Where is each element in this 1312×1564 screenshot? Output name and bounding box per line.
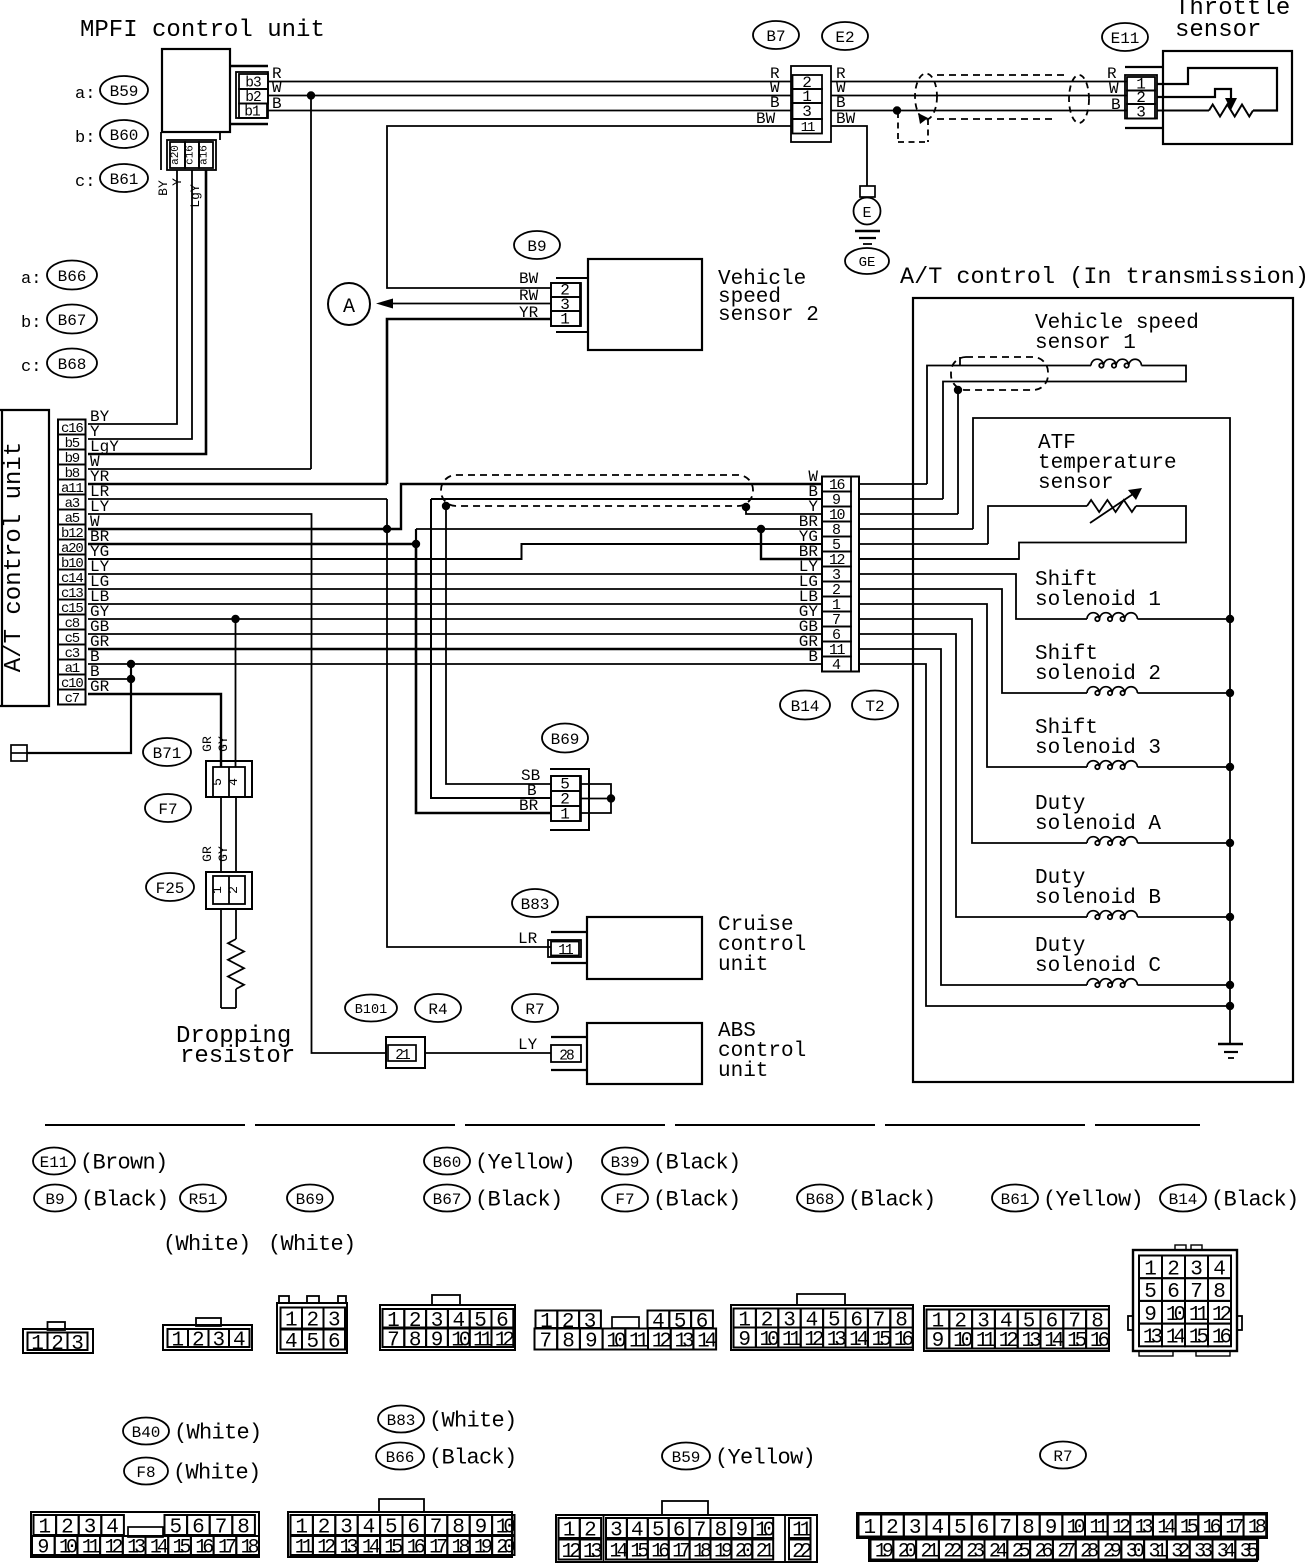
svg-text:MPFI control unit: MPFI control unit	[80, 17, 325, 44]
legend id B59	[662, 1443, 710, 1470]
svg-text:B59: B59	[110, 83, 139, 101]
svg-text:B39: B39	[611, 1154, 640, 1172]
svg-text:4: 4	[832, 657, 841, 674]
pinout connector B9 (1 2 3 4)	[163, 1325, 252, 1350]
junction BR at 761	[757, 525, 765, 533]
wire BW B7-11 to VSS2	[387, 126, 791, 288]
svg-text:3: 3	[909, 1517, 922, 1540]
wire BR to B14-8	[416, 528, 761, 530]
svg-text:2: 2	[886, 1517, 899, 1540]
wire LY to ABS-28	[425, 1052, 551, 1054]
wire B pill to B14-9	[431, 498, 822, 500]
svg-text:R51: R51	[189, 1191, 218, 1209]
svg-text:(Black): (Black)	[1211, 1187, 1299, 1212]
svg-text:LR: LR	[518, 930, 538, 948]
common return outline (inner box)	[973, 418, 1230, 1006]
svg-text:6: 6	[977, 1517, 990, 1540]
svg-text:9: 9	[585, 1331, 598, 1354]
svg-text:1: 1	[864, 1517, 877, 1540]
legend id F7	[602, 1185, 648, 1212]
svg-text:B: B	[808, 648, 818, 666]
svg-text:4: 4	[226, 778, 241, 786]
wire B b1 to B7-3	[268, 110, 791, 112]
svg-text:1: 1	[560, 806, 570, 824]
svg-text:E2: E2	[835, 29, 854, 47]
shield dashed bottom	[937, 118, 1057, 120]
svg-text:b:: b:	[75, 129, 95, 148]
connector id R7	[512, 994, 558, 1022]
svg-text:B68: B68	[58, 356, 87, 374]
pinout connector B68 (1-16)	[731, 1305, 913, 1350]
wire BR B14-12 to ATF return	[859, 558, 1019, 560]
svg-text:T2: T2	[865, 698, 884, 716]
pinout connector B69 (1-6)	[277, 1303, 347, 1353]
svg-text:c:: c:	[21, 358, 41, 377]
svg-text:21: 21	[395, 1048, 410, 1064]
A/T control unit bracket	[0, 410, 49, 706]
svg-text:solenoid 1: solenoid 1	[1035, 589, 1161, 612]
legend id B60	[424, 1148, 470, 1175]
svg-text:2: 2	[51, 1333, 64, 1356]
svg-text:B59: B59	[672, 1449, 701, 1467]
svg-text:B7: B7	[766, 28, 785, 46]
wire VSS1 top	[927, 366, 1091, 485]
legend id B14	[1160, 1185, 1206, 1212]
svg-text:1: 1	[560, 311, 570, 329]
wire YR a11	[88, 483, 387, 486]
shield dashed pill A/T-B14 bundle	[441, 475, 753, 506]
wire BY c16 to MPFI a20	[88, 170, 177, 424]
svg-text:a:: a:	[21, 270, 41, 289]
svg-text:GY: GY	[216, 846, 231, 862]
wire GB c5 to B14-6	[88, 633, 822, 635]
svg-text:11: 11	[801, 120, 815, 136]
legend id B68	[797, 1185, 843, 1212]
wire GY riser to B71-4	[235, 619, 237, 767]
connector id F7	[145, 794, 191, 822]
svg-text:B69: B69	[551, 731, 580, 749]
svg-text:B9: B9	[527, 238, 546, 256]
junction W at x311	[307, 91, 315, 99]
svg-text:solenoid 3: solenoid 3	[1035, 737, 1161, 760]
svg-text:sensor 2: sensor 2	[718, 304, 819, 327]
wiper wire	[1157, 89, 1231, 99]
wire BR riser up	[415, 529, 417, 544]
svg-text:B61: B61	[1001, 1191, 1030, 1209]
svg-text:GY: GY	[216, 736, 231, 752]
svg-text:E11: E11	[1111, 30, 1140, 48]
svg-text:sensor: sensor	[1038, 472, 1114, 495]
connector id B69	[542, 724, 588, 753]
svg-text:B60: B60	[433, 1154, 462, 1172]
wire BR into pin8	[761, 528, 822, 530]
wire to dropping resistor	[235, 909, 237, 939]
svg-text:8: 8	[409, 1329, 422, 1352]
connector R7 pin 28	[551, 1036, 587, 1038]
shield dashed ellipse right	[1069, 75, 1089, 123]
legend id R7	[1040, 1442, 1086, 1469]
svg-text:4: 4	[931, 1517, 944, 1540]
legend id B9	[34, 1185, 76, 1212]
junction BR a20	[412, 540, 420, 548]
legend id F8	[124, 1458, 168, 1485]
wire Y b5 to MPFI c16	[88, 170, 192, 439]
wire BR branch to B14-12	[761, 529, 822, 559]
wire YG b10 to B14-5	[88, 544, 822, 559]
connector pin 21	[386, 1037, 425, 1068]
svg-text:c:: c:	[75, 173, 95, 192]
wire pin3 to resistor	[1157, 110, 1209, 112]
svg-text:9: 9	[37, 1537, 49, 1560]
dropping resistor element	[228, 939, 244, 989]
wire B to body connector	[27, 664, 131, 753]
pinout connector B59 (1-22)	[556, 1515, 817, 1562]
wire GR c3 to B14-11	[88, 648, 822, 650]
connector F25 (pins 1 2)	[206, 872, 252, 909]
wire BW to ground E	[831, 126, 867, 186]
connector id B61	[100, 164, 148, 192]
shield dashed pill VSS1	[951, 357, 1048, 390]
pinout connector R7 (1-35)	[857, 1513, 1267, 1538]
wire BR a20	[88, 543, 416, 546]
svg-text:F25: F25	[156, 880, 185, 898]
svg-text:B68: B68	[806, 1191, 835, 1209]
legend id B69	[287, 1185, 333, 1212]
body ground connector	[11, 745, 27, 761]
svg-text:GE: GE	[859, 255, 876, 271]
svg-text:R7: R7	[525, 1001, 544, 1019]
legend id B61	[992, 1185, 1038, 1212]
A/T control unit pin column	[58, 420, 86, 705]
connector B69 (pins 5 2 1)	[550, 769, 589, 830]
wire shield riser VSS1	[957, 390, 959, 514]
svg-text:9: 9	[431, 1329, 444, 1352]
A/T transmission outer box	[913, 298, 1293, 1082]
svg-text:R4: R4	[428, 1001, 447, 1019]
MPFI control unit box	[162, 49, 230, 132]
connector B14/T2 pin column	[822, 477, 859, 672]
svg-text:(White): (White)	[174, 1420, 262, 1445]
svg-text:(White): (White)	[163, 1232, 251, 1257]
svg-text:3: 3	[212, 1330, 225, 1353]
wire R b3 to B7-2	[268, 81, 791, 83]
connector E11 (pins 1 2 3)	[1125, 66, 1162, 68]
junction a3/b12	[383, 525, 391, 533]
svg-text:1: 1	[171, 1330, 184, 1353]
connector id E2	[822, 22, 868, 50]
connector id F25	[146, 873, 194, 901]
connector id E11	[1102, 23, 1148, 51]
svg-text:E: E	[862, 205, 871, 222]
svg-text:6: 6	[328, 1331, 341, 1354]
shield dashed ellipse left	[915, 74, 937, 120]
svg-text:A: A	[343, 296, 355, 319]
wire LR a3	[88, 498, 387, 500]
wire BR a20 to B69-1	[416, 544, 551, 813]
cruise control unit box	[587, 917, 702, 979]
connector id B66	[47, 261, 97, 290]
B69 right side tie	[581, 784, 611, 813]
junction bus solenoid C	[1226, 981, 1234, 989]
junction bus solenoid A	[1226, 839, 1234, 847]
svg-text:(Black): (Black)	[81, 1187, 169, 1212]
wire LB c15 to B14-1	[88, 603, 822, 605]
wire LY c14 to B14-3	[88, 573, 822, 575]
shield drain dashed box	[897, 112, 899, 142]
svg-text:B71: B71	[153, 745, 182, 763]
svg-text:BR: BR	[519, 797, 539, 815]
wire Y shield to B14-10	[746, 507, 822, 514]
svg-text:b1: b1	[244, 105, 260, 121]
legend id B39	[602, 1148, 648, 1175]
connector B59/B60 MPFI right (pins b3 b2 b1)	[230, 65, 268, 67]
svg-text:F7: F7	[158, 801, 177, 819]
legend id B83	[378, 1406, 424, 1433]
wire W riser x311	[310, 96, 312, 470]
wire GY B71 to F25	[235, 797, 237, 872]
pinout connector E11 (1 2 3)	[23, 1329, 93, 1353]
shield dashed top	[937, 74, 1069, 76]
svg-text:B61: B61	[110, 171, 139, 189]
junction bus solenoid 3	[1226, 763, 1234, 771]
svg-text:R7: R7	[1053, 1448, 1072, 1466]
legend id B67	[424, 1185, 470, 1212]
junction bus solenoid 1	[1226, 615, 1234, 623]
wire LgY b9 to MPFI a16	[88, 170, 206, 454]
ATF variable resistor	[988, 506, 1087, 544]
legend id B66	[376, 1443, 424, 1470]
svg-text:E11: E11	[40, 1154, 69, 1172]
svg-text:7: 7	[540, 1331, 553, 1354]
svg-text:BY: BY	[156, 180, 171, 196]
wire VSS1 return	[943, 366, 1186, 500]
wire W b8 (joins riser x311)	[88, 468, 311, 470]
svg-text:(White): (White)	[268, 1232, 356, 1257]
wire B pill-bottom to B69-2	[431, 499, 551, 798]
connector B71/F7 (pins 5 4)	[206, 761, 252, 797]
ATF arrow	[1090, 492, 1136, 523]
junction bus solenoid 2	[1226, 689, 1234, 697]
wire B a1 to B14-4	[88, 663, 822, 665]
connector MPFI bottom (pins a20 c16 a16)	[160, 132, 162, 170]
wire GR B71 to F25	[220, 797, 222, 872]
connector B83 pin 11	[551, 931, 587, 933]
svg-text:5: 5	[954, 1517, 967, 1540]
junction shield drain right	[742, 503, 750, 511]
svg-text:(Black): (Black)	[848, 1187, 936, 1212]
svg-text:B14: B14	[1169, 1191, 1198, 1209]
svg-text:a:: a:	[75, 85, 95, 104]
pinout connector B60/B67 (1-12)	[380, 1305, 515, 1350]
svg-text:B: B	[1111, 96, 1121, 114]
svg-text:11: 11	[558, 943, 573, 959]
pinout connector B14 (4x4)	[1133, 1250, 1237, 1351]
svg-text:c16: c16	[185, 145, 197, 165]
connector id B7	[753, 21, 799, 49]
connector id B101	[345, 995, 397, 1022]
wire B B7 to E11	[831, 110, 1127, 112]
svg-text:BW: BW	[519, 270, 539, 288]
svg-text:sensor 1: sensor 1	[1035, 332, 1136, 355]
connector id T2	[852, 691, 898, 720]
wire W B7 to E11	[831, 95, 1127, 97]
svg-text:solenoid C: solenoid C	[1035, 955, 1161, 978]
svg-text:(Black): (Black)	[653, 1187, 741, 1212]
ground transmission	[1229, 1006, 1231, 1044]
pinout connector B61 (1-16)	[924, 1306, 1109, 1351]
svg-text:c7: c7	[65, 691, 80, 707]
vehicle speed sensor 2 box	[588, 259, 702, 350]
svg-text:1: 1	[210, 886, 225, 894]
connector id B71	[143, 738, 191, 766]
wire GR c7 to B71-5	[88, 694, 221, 767]
junction bus bottom	[1226, 1002, 1234, 1010]
connector id B14	[780, 691, 830, 720]
svg-text:3: 3	[1136, 104, 1146, 122]
svg-text:B66: B66	[58, 268, 87, 286]
junction VSS1 shield	[954, 386, 962, 394]
dashed separator	[45, 1124, 1200, 1126]
svg-text:B66: B66	[386, 1449, 415, 1467]
wire YG B14-5 to ATF	[859, 543, 988, 545]
svg-text:LgY: LgY	[188, 184, 203, 208]
svg-text:F7: F7	[615, 1191, 634, 1209]
svg-text:1: 1	[31, 1333, 44, 1356]
svg-text:solenoid B: solenoid B	[1035, 887, 1161, 910]
wire to dropping resistor	[220, 909, 222, 1008]
legend id E11	[33, 1148, 75, 1175]
svg-text:(Brown): (Brown)	[80, 1150, 168, 1175]
svg-text:4: 4	[233, 1330, 246, 1353]
connector id B67	[47, 305, 97, 334]
wire LR riser to cruise control	[387, 499, 551, 947]
svg-text:GR: GR	[200, 846, 215, 862]
svg-text:B83: B83	[387, 1412, 416, 1430]
svg-text:B101: B101	[355, 1003, 387, 1018]
inductor vehicle speed sensor 1	[1091, 359, 1141, 368]
pinout connector B39/F7 (1-14)	[536, 1311, 558, 1329]
svg-text:5: 5	[306, 1331, 319, 1354]
wire resistor bottom	[221, 1007, 236, 1009]
ground E	[860, 186, 875, 197]
wire RW to node A	[392, 303, 551, 305]
svg-text:8: 8	[562, 1331, 575, 1354]
svg-text:9: 9	[932, 1330, 945, 1353]
connector id B68	[47, 349, 97, 378]
wire B c10	[88, 678, 131, 680]
wire W B14-16 to VSS1	[859, 483, 927, 485]
svg-text:9: 9	[738, 1329, 751, 1352]
svg-text:(White): (White)	[173, 1460, 261, 1485]
connector id B59	[100, 76, 148, 104]
svg-text:LY: LY	[518, 1036, 538, 1054]
wire BR B14-8 to common	[859, 528, 973, 530]
junction B69 tie	[607, 794, 615, 802]
svg-text:F8: F8	[136, 1464, 155, 1482]
legend id B40	[123, 1418, 169, 1445]
svg-text:(White): (White)	[429, 1408, 517, 1433]
svg-text:5: 5	[210, 778, 225, 786]
svg-text:unit: unit	[718, 1060, 768, 1083]
wire Y B14-10 to shield	[859, 513, 958, 515]
svg-text:4: 4	[285, 1331, 298, 1354]
pinout connector B40/F8 (1-18)	[31, 1512, 259, 1557]
wire YR VSS2 to a11	[387, 319, 551, 484]
svg-text:B40: B40	[132, 1424, 161, 1442]
wire GY c8 to B14-7	[88, 618, 822, 620]
svg-text:(Yellow): (Yellow)	[1043, 1187, 1143, 1212]
junction bus solenoid B	[1226, 913, 1234, 921]
svg-text:A/T control unit: A/T control unit	[1, 442, 28, 672]
connector id B83	[512, 889, 558, 917]
svg-text:B83: B83	[521, 896, 550, 914]
legend id R51	[180, 1185, 226, 1212]
svg-text:b:: b:	[21, 314, 41, 333]
potentiometer resistor	[1209, 105, 1253, 117]
svg-text:B14: B14	[791, 698, 820, 716]
svg-text:(Black): (Black)	[653, 1150, 741, 1175]
wire B return bottom	[859, 664, 1230, 1006]
svg-text:A/T control (In transmission): A/T control (In transmission)	[900, 264, 1309, 291]
node A circle	[328, 283, 370, 325]
wire W b2 to B7-1	[268, 95, 791, 97]
wire W b12 to B14-16	[88, 484, 822, 529]
svg-text:B9: B9	[45, 1191, 64, 1209]
svg-text:RW: RW	[519, 287, 539, 305]
throttle sensor box	[1163, 51, 1292, 144]
wire SB shield to B69-5	[446, 506, 551, 784]
svg-text:7: 7	[387, 1329, 400, 1352]
svg-text:(Yellow): (Yellow)	[475, 1150, 575, 1175]
svg-text:solenoid 2: solenoid 2	[1035, 663, 1161, 686]
junction a1	[127, 660, 135, 668]
junction B shield	[893, 106, 901, 114]
pinout connector B66/B83 (1-20)	[288, 1512, 512, 1557]
connector id GE	[845, 248, 889, 274]
wire LY a5 to ABS	[88, 514, 386, 1053]
svg-text:2: 2	[192, 1330, 205, 1353]
svg-text:28: 28	[559, 1049, 574, 1065]
connector id B60	[100, 120, 148, 148]
svg-text:(Black): (Black)	[429, 1445, 517, 1470]
wire R B7 to E11	[831, 81, 1127, 83]
svg-text:solenoid A: solenoid A	[1035, 813, 1161, 836]
connector id B9	[514, 231, 560, 259]
junction shield drain left	[442, 502, 450, 510]
svg-text:B67: B67	[433, 1191, 462, 1209]
svg-text:a16: a16	[199, 145, 211, 165]
svg-text:8: 8	[1022, 1517, 1035, 1540]
connector id R4	[415, 994, 461, 1022]
svg-text:a20: a20	[170, 145, 182, 165]
svg-text:B60: B60	[110, 127, 139, 145]
svg-text:9: 9	[1045, 1517, 1058, 1540]
svg-text:(Yellow): (Yellow)	[715, 1445, 815, 1470]
junction GY branch	[231, 615, 239, 623]
svg-text:resistor: resistor	[180, 1043, 295, 1070]
ABS control unit box	[587, 1023, 702, 1084]
throttle potentiometer	[1157, 68, 1277, 111]
svg-text:unit: unit	[718, 954, 768, 977]
junction c10	[127, 675, 135, 683]
connector B9 (pins 2 3 1)	[556, 277, 588, 279]
svg-text:B67: B67	[58, 312, 87, 330]
svg-text:3: 3	[71, 1333, 84, 1356]
svg-text:3: 3	[802, 103, 812, 121]
svg-text:sensor: sensor	[1175, 17, 1261, 44]
svg-text:B69: B69	[296, 1191, 325, 1209]
wire LG c13 to B14-2	[88, 588, 822, 590]
